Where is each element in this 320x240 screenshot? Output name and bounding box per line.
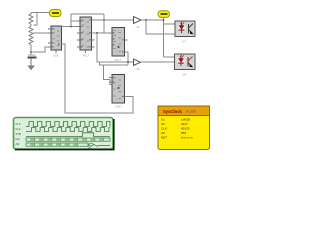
svg-text:555: 555 [53, 53, 58, 57]
counter U2 4017 [77, 17, 95, 53]
label U6 4017 [115, 105, 122, 109]
wire U2 out to buffer U4 [92, 19, 134, 21]
wire wiper bracket [34, 13, 38, 26]
node F junction [145, 19, 147, 21]
optocoupler U7 [175, 21, 195, 37]
svg-text:Adr: Adr [16, 142, 20, 146]
svg-text:CLK: CLK [161, 127, 167, 131]
svg-text:U5: U5 [136, 67, 140, 71]
svg-text:00: 00 [88, 146, 92, 150]
wire rail to opto U8 anode [164, 56, 175, 58]
svg-text:U7: U7 [182, 40, 186, 44]
wire loop below buffer2 line [100, 62, 129, 65]
svg-text:A0: A0 [161, 131, 165, 135]
label U4 [136, 25, 140, 29]
label U1 555 [53, 53, 58, 57]
op-amp U1 555 timer [48, 26, 62, 53]
ground [27, 59, 35, 71]
wire U2 to U3 clock row [92, 32, 113, 34]
capacitor C1 [28, 55, 37, 59]
digital graph panel [14, 118, 114, 150]
svg-text:4017E: 4017E [181, 127, 190, 131]
graph trace CLK2 [26, 128, 110, 132]
clock generator oval 2 [158, 11, 170, 18]
svg-text:STB: STB [16, 132, 21, 136]
svg-text:v1.233: v1.233 [186, 110, 196, 114]
wire VCC top to clock oval [31, 12, 50, 14]
wire U1 pin to feedback bus [62, 43, 66, 45]
script popup title bar [158, 106, 210, 150]
node D junction [96, 32, 98, 34]
resistor R1 [29, 13, 33, 27]
wire node F to opto U7 cathode [146, 20, 175, 34]
svg-text:4017: 4017 [181, 122, 188, 126]
label U5 [136, 67, 140, 71]
counter U6 4017 [109, 75, 125, 104]
svg-text:LM555: LM555 [181, 118, 191, 122]
wire wiper to U1 [33, 32, 51, 34]
wire branch to U6 clock [104, 65, 113, 85]
node A junction [30, 51, 32, 53]
wire node D down to buffer U5 input [97, 33, 134, 62]
wire U6 out feedback loop [62, 44, 134, 113]
wire U1 out to U2 [62, 26, 81, 28]
graph trace CLK1 [26, 122, 110, 127]
node C junction [103, 19, 105, 21]
wire U3 out down to buffer input net [125, 52, 129, 65]
svg-text:CLK: CLK [16, 122, 21, 126]
svg-text:CLK: CLK [16, 127, 21, 131]
svg-text:4017: 4017 [83, 53, 90, 57]
svg-text:U4: U4 [136, 25, 140, 29]
svg-text:4017: 4017 [115, 105, 122, 109]
clock generator oval 1 [50, 10, 62, 17]
graph trace labels [16, 122, 21, 146]
svg-text:Dat: Dat [16, 137, 20, 141]
svg-text:SysClock: SysClock [163, 109, 183, 114]
svg-text:U8: U8 [182, 73, 186, 77]
svg-text:U1: U1 [161, 118, 165, 122]
wire node B up and over [71, 14, 104, 27]
optocoupler U8 [175, 54, 196, 70]
counter U3 4017 [109, 28, 128, 57]
script popup rows [161, 118, 193, 140]
node B junction [70, 26, 72, 28]
graph bus trace 2 [26, 143, 110, 150]
graph trace STB [26, 133, 110, 137]
svg-text:4017: 4017 [115, 58, 122, 62]
potentiometer R2 [29, 26, 33, 55]
svg-text:555: 555 [181, 131, 186, 135]
label U7 [182, 40, 186, 44]
wire rail to opto U7 anode [164, 23, 176, 25]
svg-text:U2: U2 [161, 122, 165, 126]
label U2 4017 [83, 53, 90, 57]
buffer U5 [134, 59, 141, 66]
wire oval2 vertical rail [163, 17, 165, 57]
wire buffer U5 output to opto U8 [141, 61, 175, 63]
svg-text:first timer: first timer [181, 136, 193, 140]
wire buffer U4 output [141, 19, 164, 21]
svg-text:NET: NET [161, 136, 167, 140]
wire node C vertical [103, 14, 105, 33]
node G junction [163, 19, 165, 21]
wire to U2 reset [71, 20, 80, 22]
wire node A to U1 [31, 47, 51, 52]
label U8 [182, 73, 186, 77]
label U3 4017 [115, 58, 122, 62]
graph bus trace 1 [26, 138, 110, 141]
node E junction [127, 61, 129, 63]
buffer U4 [134, 17, 142, 24]
